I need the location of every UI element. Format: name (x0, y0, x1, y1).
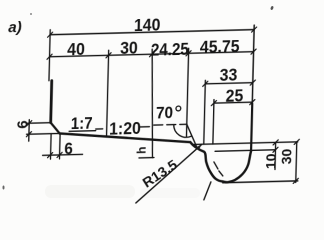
dash between 1:7 and 1:20 (96, 128, 103, 130)
line under 1:7 (69, 130, 96, 133)
svg-text:30: 30 (278, 148, 294, 164)
dashed horizontal reference for 70deg (154, 123, 187, 126)
dimension line 25 (214, 101, 252, 104)
30-below reference line (C) (223, 181, 298, 183)
dimension line 33 (205, 83, 253, 84)
extension tick at x=110 (40/30 boundary) (107, 50, 109, 136)
horizontal 6 dim: left extension (49, 134, 52, 160)
degree mark of 70 (176, 106, 181, 111)
left extension line (thin upper part) (49, 30, 50, 81)
svg-text:а): а) (8, 19, 22, 36)
h bottom tick (139, 157, 154, 159)
junction slash marks on dimension lines (25, 26, 302, 190)
extension line 33 left (204, 80, 206, 144)
svg-text:24.25: 24.25 (151, 38, 189, 60)
svg-text:6: 6 (14, 120, 31, 129)
thin line below flange (204, 182, 211, 200)
svg-text:6: 6 (64, 139, 73, 158)
R13.5 leader line (136, 144, 202, 203)
svg-text:40: 40 (67, 39, 85, 60)
extension tick at x=153.5 (30/24.25 boundary, h line) (149, 49, 155, 158)
dimension line 30 (vertical) (296, 142, 297, 183)
svg-text:10: 10 (262, 153, 278, 169)
dimension line 140 (50, 30, 254, 35)
speck bottom left (3, 186, 5, 190)
svg-text:25: 25 (225, 85, 243, 106)
70deg face construction line (186, 124, 198, 148)
vertical 6 lower dim line (27, 132, 60, 135)
dimension line row 40/30/24.25/45.75 (50, 52, 254, 57)
profile: tread surface (thick) (59, 130, 190, 145)
extension tick at x=190 (24.25/45.75 boundary) (186, 48, 188, 137)
dashed strokes inside flange (214, 162, 224, 176)
horizontal 6 dimension line (43, 154, 83, 155)
right main vertical line (inner face + dim ticks) (252, 25, 254, 104)
vertical 6 upper dim line (27, 122, 51, 125)
extension line 25 left (213, 100, 214, 145)
svg-text:140: 140 (134, 14, 161, 35)
profile: left edge (thick) (51, 81, 52, 123)
dash after 1:20 (140, 126, 149, 128)
profile: flange fillet and flange (thick) (189, 141, 251, 184)
R13.5 leader arrowhead (196, 144, 202, 150)
10-below reference line (B) (215, 150, 275, 152)
svg-text:33: 33 (219, 64, 237, 85)
svg-text:30: 30 (120, 38, 138, 59)
svg-text:1:20: 1:20 (109, 118, 141, 139)
70deg angle arc (173, 124, 192, 137)
speck near a) (30, 13, 32, 15)
profile: chamfer 6x6 (thick) (50, 122, 59, 133)
svg-text:h: h (134, 146, 148, 154)
horizontal 6 dim: right extension (58, 134, 61, 159)
svg-text:45.75: 45.75 (200, 36, 240, 57)
svg-text:70: 70 (156, 103, 173, 122)
speck top right (270, 6, 274, 11)
dimension line 10 (vertical) (274, 142, 277, 169)
vertical 6 dimension line (28, 120, 31, 142)
faint smudge band (paper artifact) (45, 185, 135, 198)
tread extension reference line (A) (193, 142, 298, 145)
